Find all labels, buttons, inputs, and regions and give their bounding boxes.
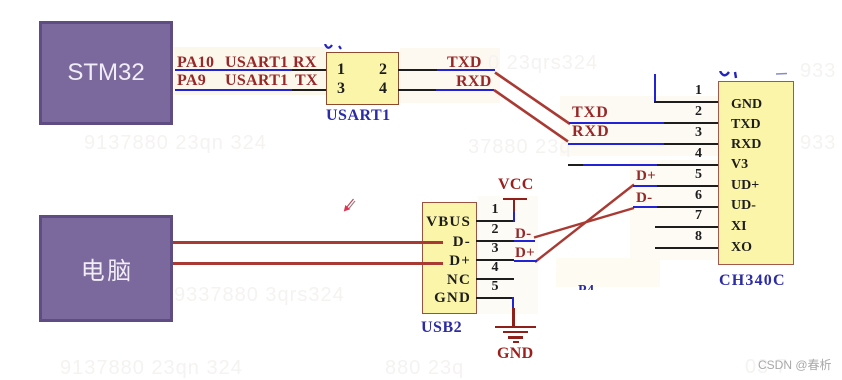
USB2 pin2 number — [487, 222, 503, 238]
USB2 pin name GND — [424, 290, 471, 307]
CH340C pin name V3 — [731, 157, 748, 173]
CH340C pin name GND — [731, 97, 762, 113]
label TXD at CH340C — [572, 104, 609, 122]
wire CH340C pin4 black left tip — [568, 164, 583, 166]
VCC rail: blue elbow up from pin1 — [513, 211, 515, 222]
wire USB2 pin3 blue underline D+ — [514, 260, 537, 262]
USB2 pin1 number — [487, 202, 503, 218]
label TX — [295, 72, 318, 90]
faint watermark bottom-right corner — [745, 356, 788, 379]
label VCC — [498, 176, 534, 194]
label D+ at USB2 — [515, 245, 535, 262]
wire USB2 pin2 stub — [476, 240, 514, 242]
chip CH340C body — [718, 81, 794, 265]
faint watermark row mid-right upper — [488, 52, 598, 75]
wire USB2 pin1 stub — [476, 220, 513, 222]
faint watermark right-edge top — [800, 60, 836, 83]
VCC bar — [503, 198, 527, 201]
faint watermark row bottom-left — [60, 357, 243, 380]
USB2 pin name NC — [424, 272, 471, 289]
wire USB2 pin5 stub — [476, 297, 513, 299]
USART1 pin 1 — [334, 61, 348, 79]
label USART1 RX net name — [225, 54, 288, 72]
USB2 pin4 number — [487, 260, 503, 276]
wire USART1 pin2 black segment — [398, 69, 437, 71]
CH340C pin8 number — [680, 229, 702, 245]
USART1 pin 3 — [334, 80, 348, 98]
label TXD near USART1 — [447, 54, 482, 72]
diagonal wire RXD to CH340C RXD — [494, 90, 568, 142]
faint watermark right-edge mid — [800, 132, 836, 155]
block computer (电脑) — [39, 215, 173, 322]
wire PA10 blue segment — [175, 69, 292, 71]
connector USB2 body — [422, 202, 477, 314]
ground bar 1 — [495, 326, 536, 329]
USB2 pin name D- — [424, 234, 471, 251]
wire USB2 pin4 stub NC — [476, 278, 514, 280]
ground bar 2 — [503, 331, 528, 334]
label PA9 — [177, 72, 206, 90]
wire CH340C pin5 black segment — [657, 185, 718, 187]
CH340C pin name XI — [731, 219, 747, 235]
wire USART1 pin4 black segment — [398, 89, 436, 91]
wire PA9 black segment to USART1 pin3 — [292, 89, 327, 91]
wire PA9 blue segment — [175, 89, 292, 91]
wire RXD blue segment — [436, 89, 494, 91]
wire CH340C pin1 vertical blue — [654, 74, 656, 102]
label D- at USB2 — [515, 226, 531, 243]
CSDN watermark — [758, 356, 832, 373]
designator USART1 — [326, 107, 391, 125]
wire USB2 pin2 blue underline D- — [514, 240, 535, 242]
label RX — [293, 54, 317, 72]
wire CH340C pin2 blue segment — [569, 122, 664, 124]
CH340C pin5 number — [680, 167, 702, 183]
wire CH340C pin4 blue segment — [583, 164, 657, 166]
designator CH340C — [719, 272, 786, 290]
wire CH340C pin5 blue segment — [633, 185, 657, 187]
wire CH340C pin3 black segment — [664, 143, 718, 145]
label RXD near USART1 — [456, 73, 492, 91]
USART1 pin 2 — [376, 61, 390, 79]
wire computer to USB D+ (thick red) — [173, 262, 443, 265]
faint watermark bottom-middle — [385, 357, 464, 380]
wire USB2 pin3 stub — [476, 259, 514, 261]
ground bar 3 — [508, 336, 523, 339]
USB2 pin3 number — [487, 241, 503, 257]
USB2 pin name D+ — [424, 253, 471, 270]
diagonal wire USB D+ to CH340C UD+ — [535, 185, 634, 263]
USART1 pin 4 — [376, 80, 390, 98]
VCC rail red vertical — [513, 200, 516, 212]
wire PA10 black segment to USART1 pin1 — [292, 69, 327, 71]
diagonal wire USB D- to CH340C UD- — [534, 208, 634, 238]
wire computer to USB D- (thick red) — [173, 241, 443, 244]
CH340C pin name UD- — [731, 198, 756, 214]
partial designator U1 above CH340C — [719, 71, 791, 79]
CH340C pin3 number — [680, 125, 702, 141]
label D- at CH340C — [636, 190, 652, 207]
partial designator mark above USART1 — [324, 44, 346, 51]
CH340C pin name RXD — [731, 137, 761, 153]
wire CH340C pin7 stub — [655, 226, 718, 228]
CH340C pin name XO — [731, 240, 752, 256]
CH340C pin2 number — [680, 104, 702, 120]
faint watermark row top-left — [84, 132, 267, 155]
USB2 pin5 number — [487, 279, 503, 295]
wire CH340C pin6 blue segment — [633, 206, 657, 208]
CH340C pin name UD+ — [731, 178, 759, 194]
wire CH340C pin8 stub — [655, 247, 718, 249]
wire TXD blue segment — [437, 69, 495, 71]
wire CH340C pin6 black segment — [657, 206, 718, 208]
faint watermark row mid-right lower — [468, 136, 572, 159]
CH340C pin name TXD — [731, 117, 761, 133]
CH340C pin4 number — [680, 146, 702, 162]
label D+ at CH340C — [636, 168, 656, 185]
annotation arrow cursor — [344, 199, 355, 212]
faint watermark row center-left — [174, 284, 345, 307]
CH340C pin7 number — [680, 208, 702, 224]
ground red vertical — [512, 308, 515, 326]
connector USART1 body — [326, 52, 399, 105]
label USART1 TX net name — [225, 72, 288, 90]
wire CH340C pin1 stub — [654, 101, 718, 103]
label RXD at CH340C — [572, 123, 610, 141]
wire CH340C pin3 blue segment — [568, 143, 664, 145]
USB2 pin name VBUS — [424, 214, 471, 231]
ground bar 4 — [513, 341, 519, 343]
ground: blue elbow down from pin5 — [512, 297, 514, 308]
wire CH340C pin4 black segment — [657, 164, 718, 166]
label GND below ground symbol — [497, 345, 533, 363]
label PA10 — [177, 54, 214, 72]
designator USB2 — [421, 319, 462, 337]
wire CH340C pin2 black segment — [664, 122, 718, 124]
CH340C pin1 number — [680, 83, 702, 99]
partial designator P4 below between USB2 and CH340C — [578, 283, 604, 290]
block STM32 — [39, 21, 173, 125]
CH340C pin6 number — [680, 188, 702, 204]
